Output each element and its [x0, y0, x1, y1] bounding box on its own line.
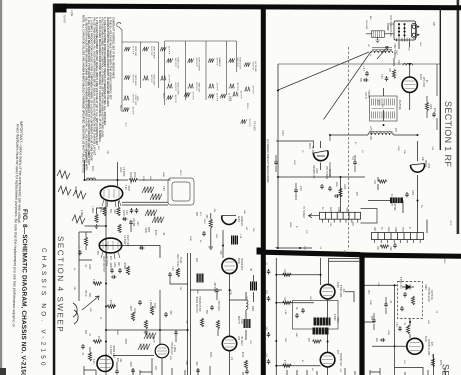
svg-text:PLUG: PLUG [179, 257, 181, 263]
wire [340, 177, 342, 212]
svg-text:94-173A: 94-173A [328, 169, 331, 178]
resistor R404 [117, 207, 120, 216]
svg-text:PIN 5: PIN 5 [162, 93, 164, 99]
wire: group1 drop col1 [121, 42, 123, 112]
svg-text:22K: 22K [84, 330, 86, 335]
terminal strip TS2 [372, 233, 424, 243]
svg-text:HTR: HTR [345, 207, 347, 212]
capacitor C12 [274, 160, 278, 165]
svg-text:120 V P-P: 120 V P-P [174, 58, 176, 68]
resistor R409 [93, 340, 102, 343]
svg-text:6BL7: 6BL7 [91, 166, 93, 172]
svg-text:470K: 470K [154, 230, 156, 236]
svg-text:6 KV P-P: 6 KV P-P [252, 62, 254, 71]
svg-text:28 V P-P: 28 V P-P [216, 93, 218, 102]
capacitor C418 [81, 344, 85, 349]
capacitor C406 [118, 268, 122, 273]
svg-text:27K: 27K [154, 366, 156, 371]
svg-text:10K 2W: 10K 2W [132, 218, 134, 227]
svg-text:1000: 1000 [343, 184, 345, 190]
svg-text:3.3K: 3.3K [92, 359, 94, 364]
deflection arc pair [73, 303, 78, 324]
wire [276, 302, 314, 304]
svg-text:.068: .068 [219, 250, 221, 255]
capacitor C5 [328, 186, 332, 191]
resistor R3 [339, 188, 342, 197]
svg-text:VHF TUNER: VHF TUNER [325, 166, 327, 179]
svg-text:CHASSIS NO. V-2150: CHASSIS NO. V-2150 [39, 248, 47, 369]
coil L1 uhf tank [371, 48, 393, 53]
tube V7 hv rect [222, 336, 236, 350]
wire: tube V1 top lead [117, 162, 119, 186]
svg-text:12 V P-P: 12 V P-P [248, 119, 250, 128]
capacitor C32 [398, 326, 402, 331]
svg-text:47K: 47K [430, 342, 432, 347]
wire [365, 284, 398, 286]
svg-text:82K: 82K [195, 212, 197, 217]
capacitor C7 [393, 243, 397, 248]
svg-text:HTR: HTR [401, 227, 403, 232]
waveform W11 [167, 95, 177, 104]
svg-text:47K: 47K [116, 358, 118, 363]
resistor R1 [392, 70, 395, 79]
wire: bottom stubs [106, 351, 230, 375]
if transformer T1 [370, 96, 398, 121]
wire: sound misc [365, 297, 434, 358]
svg-text:HORIZ: HORIZ [123, 262, 125, 270]
wire: group2 drop col8 [236, 41, 238, 72]
svg-text:TP 1407: TP 1407 [253, 121, 257, 131]
svg-text:45 V P-P: 45 V P-P [174, 83, 176, 92]
svg-text:15 V P-P: 15 V P-P [132, 107, 134, 116]
svg-text:.0047: .0047 [185, 360, 187, 366]
capacitor C10 [294, 188, 298, 193]
svg-text:6AX4: 6AX4 [237, 216, 240, 222]
capacitor C403 [122, 217, 127, 221]
wire: horiz bus lower [106, 329, 188, 331]
wire: group1 drop col3 [158, 42, 160, 88]
wire: rf misc [296, 64, 437, 200]
svg-text:HOLD: HOLD [84, 290, 86, 297]
svg-text:39K: 39K [117, 262, 119, 267]
wire: group1 drop col2 [140, 42, 142, 88]
capacitor C420 [245, 369, 249, 374]
waveform sawtooth [150, 194, 162, 200]
svg-text:3.9K: 3.9K [162, 186, 164, 191]
svg-text:1000: 1000 [315, 168, 317, 174]
wire: vert osc plate bus [85, 179, 129, 181]
svg-text:100K: 100K [88, 264, 90, 270]
svg-text:500K: 500K [209, 352, 211, 358]
wire: rf agc row [276, 141, 314, 172]
svg-text:1N64: 1N64 [424, 284, 426, 290]
svg-text:85 V P-P: 85 V P-P [236, 83, 238, 92]
capacitor C411 [129, 220, 133, 225]
wire [100, 246, 161, 259]
svg-text:.001: .001 [342, 288, 344, 293]
svg-text:TO ANT: TO ANT [63, 15, 66, 24]
resistor R31 [406, 325, 409, 334]
waveform squiggle left 3 [73, 190, 86, 199]
svg-text:VERT OUTPUT: VERT OUTPUT [102, 256, 104, 273]
resistor R407 [93, 282, 102, 285]
arrow to strip TS1 [309, 214, 320, 218]
capacitor C22 [267, 332, 271, 337]
svg-text:TO IF: TO IF [449, 220, 451, 226]
svg-text:560K: 560K [162, 172, 164, 178]
capacitor C412 [168, 272, 172, 277]
capacitor C405 [110, 268, 114, 273]
wire: link coil row [330, 134, 418, 136]
waveform W5 [143, 46, 156, 59]
capacitor C11 [405, 192, 409, 197]
wire: yoke pair upper [122, 202, 168, 205]
svg-text:6W4: 6W4 [251, 306, 253, 311]
svg-text:140 V P-P: 140 V P-P [150, 46, 152, 56]
svg-text:15K: 15K [403, 150, 405, 154]
waveform W15 [208, 83, 218, 92]
ground G3 [144, 330, 148, 334]
waveform squiggle left 1 [57, 170, 70, 179]
sweep label smudges [74, 152, 253, 371]
svg-text:VERT OUT: VERT OUT [126, 235, 128, 247]
svg-text:82K: 82K [169, 356, 171, 360]
resistor R21 [283, 301, 292, 304]
svg-text:4.5MC DET: 4.5MC DET [399, 277, 401, 290]
resistor R418 [88, 352, 91, 361]
svg-text:470K: 470K [99, 207, 101, 213]
svg-text:6BQ7: 6BQ7 [308, 143, 310, 150]
svg-text:470K: 470K [229, 290, 231, 296]
diagonal gang line 2 [324, 52, 372, 120]
tube V4 horiz output [222, 258, 237, 273]
wire: B+ bus vertical [105, 226, 107, 356]
wire: group2 drop col5 [185, 41, 187, 100]
trimmer arrow hold ctrl [82, 296, 99, 310]
svg-text:8.2K: 8.2K [92, 279, 94, 284]
resistor R412 [200, 318, 203, 327]
svg-text:.047: .047 [87, 152, 89, 157]
svg-text:HORIZ OSC: HORIZ OSC [112, 345, 114, 358]
waveform W6 [143, 75, 156, 87]
svg-text:1 MEG: 1 MEG [149, 300, 151, 307]
svg-text:.0039: .0039 [203, 218, 205, 224]
svg-text:2.2K: 2.2K [125, 210, 127, 215]
capacitor C34 [372, 318, 376, 323]
svg-text:1/2 6SN7: 1/2 6SN7 [123, 235, 125, 245]
svg-text:PHASE DET: PHASE DET [170, 342, 173, 356]
capacitor C410 [196, 368, 200, 373]
wire [276, 274, 320, 276]
svg-text:SECTION 1 RF: SECTION 1 RF [443, 101, 453, 167]
svg-text:3.3K: 3.3K [380, 74, 382, 79]
svg-text:.0039: .0039 [144, 227, 146, 233]
svg-text:HORIZ AFC: HORIZ AFC [153, 75, 156, 87]
wire [276, 365, 320, 367]
wire: if out [368, 201, 403, 214]
wire [253, 275, 255, 302]
capacitor C401 [130, 208, 134, 213]
svg-text:2.2K: 2.2K [299, 186, 301, 191]
capacitor C30 [403, 292, 407, 297]
svg-text:55 V P-P: 55 V P-P [132, 95, 134, 104]
svg-text:.005: .005 [265, 326, 267, 331]
yoke plug outer box [168, 178, 194, 205]
waveform sawtooth at V1 [142, 187, 154, 193]
svg-text:PIN 2: PIN 2 [179, 170, 181, 176]
resistor R401 [129, 178, 138, 181]
capacitor C23 [267, 359, 271, 364]
svg-text:GND: GND [337, 207, 339, 212]
thick horizontal divider right part [360, 252, 461, 258]
waveform W9 [167, 58, 179, 70]
svg-text:46.75: 46.75 [377, 100, 379, 106]
svg-text:.0047: .0047 [295, 332, 297, 338]
svg-text:SOUND IF AMP: SOUND IF AMP [427, 339, 430, 356]
capacitor C1 [385, 76, 389, 81]
svg-text:VERT GRID: VERT GRID [134, 75, 136, 87]
scan left edge shadow [0, 0, 2, 375]
svg-text:COIL: COIL [240, 319, 242, 325]
svg-text:GND: GND [394, 227, 396, 232]
svg-text:.001: .001 [119, 358, 121, 363]
svg-text:12K: 12K [89, 308, 91, 312]
svg-text:47K: 47K [97, 146, 99, 150]
svg-text:15K: 15K [215, 234, 217, 238]
wire: mixer column [417, 141, 419, 233]
svg-text:HEIGHT: HEIGHT [74, 186, 76, 195]
svg-text:VERT LIN: VERT LIN [122, 210, 124, 221]
svg-text:160K: 160K [119, 167, 121, 173]
wire: V1 to V2 link [106, 201, 119, 226]
svg-text:30 V P-P: 30 V P-P [150, 75, 152, 84]
wire: bottom box [395, 368, 424, 375]
svg-text:95 V P-P: 95 V P-P [216, 58, 218, 67]
waveform sawtooth at V6 [138, 344, 150, 350]
detector dashed box [398, 282, 423, 319]
svg-text:270K: 270K [439, 360, 441, 366]
capacitor C33 [380, 338, 385, 342]
svg-text:HORIZ OUT: HORIZ OUT [240, 258, 242, 271]
waveform W23 [184, 92, 194, 101]
capacitor C415 [164, 312, 168, 317]
svg-text:KNOWN 100: KNOWN 100 [312, 165, 314, 179]
waveform W4 [123, 107, 134, 116]
svg-text:220K: 220K [142, 176, 144, 182]
capacitor C9 [353, 160, 357, 165]
coil L27 osc link [368, 131, 393, 135]
capacitor C417 [139, 246, 144, 250]
svg-text:FINE TUNING: FINE TUNING [393, 44, 395, 59]
wire [320, 141, 322, 170]
resistor R417 [84, 237, 87, 246]
capacitor C414 [138, 300, 142, 305]
svg-text:(A) SWEEP CIRCUIT WAVEFORMS: (A) SWEEP CIRCUIT WAVEFORMS [266, 139, 270, 183]
svg-text:HORIZ OUT: HORIZ OUT [239, 58, 241, 70]
svg-text:35 V P-P: 35 V P-P [168, 46, 170, 55]
svg-text:4.7K: 4.7K [283, 360, 285, 365]
video label smudges [265, 262, 345, 367]
waveform sawtooth [145, 210, 157, 216]
svg-text:VOL: VOL [367, 290, 369, 295]
capacitor C409 [131, 368, 135, 373]
capacitor C20 [267, 269, 271, 274]
svg-text:390K: 390K [116, 330, 118, 336]
tube V1 vert osc [100, 186, 122, 207]
svg-text:90 V P-P: 90 V P-P [132, 75, 134, 84]
tuner switch box [394, 21, 419, 40]
svg-text:PIN 7: PIN 7 [211, 95, 213, 101]
capacitor C6 [334, 194, 339, 198]
left print border [53, 4, 56, 375]
coil L2 [403, 63, 413, 65]
waveform W16 [208, 93, 218, 102]
resistor R23 [313, 340, 322, 343]
transformer core T401 [231, 236, 238, 245]
svg-text:270K: 270K [133, 172, 135, 178]
svg-text:15 V P-P: 15 V P-P [240, 91, 242, 100]
svg-text:HV: HV [249, 268, 251, 272]
svg-text:.005: .005 [389, 246, 391, 251]
svg-text:500K: 500K [369, 300, 371, 306]
capacitor C31 [400, 306, 404, 311]
svg-text:22K: 22K [284, 338, 286, 342]
thick horizontal divider left part [263, 250, 360, 258]
coil L401 [87, 178, 96, 180]
capacitor C421 [174, 330, 178, 335]
svg-text:.047: .047 [112, 303, 114, 308]
svg-text:HORIZ OUTPUT: HORIZ OUTPUT [195, 296, 197, 314]
svg-text:PIN 9: PIN 9 [246, 103, 248, 109]
svg-text:1.8K: 1.8K [284, 310, 286, 315]
transformer core T403 [244, 319, 251, 328]
tube V12 sound det [320, 352, 335, 367]
capacitor C2 [365, 71, 369, 76]
svg-text:MC: MC [381, 104, 383, 108]
svg-text:4.5MC AMP: 4.5MC AMP [339, 285, 342, 298]
svg-text:470K: 470K [109, 300, 111, 306]
rf label smudges [281, 16, 435, 252]
svg-text:1B3: 1B3 [237, 336, 239, 341]
junction dots rf [277, 63, 419, 249]
svg-text:IF OUTPUT: IF OUTPUT [390, 194, 392, 207]
resistor R403 [103, 207, 106, 216]
capacitor C407 [111, 275, 116, 279]
wire [229, 292, 246, 340]
waveform W10 [167, 83, 179, 96]
yoke plug inner box [172, 182, 190, 201]
wire [372, 345, 407, 347]
svg-text:ANT: ANT [369, 16, 372, 21]
wire [79, 232, 92, 301]
wire: b+ bus vertical [275, 258, 277, 375]
svg-text:70 V P-P: 70 V P-P [216, 83, 218, 92]
wire [327, 334, 329, 353]
center thick vertical divider [261, 8, 266, 375]
wire [345, 292, 354, 302]
svg-text:SYNC OUT: SYNC OUT [134, 95, 136, 106]
waveform W22 [241, 119, 251, 128]
waveform sawtooth [144, 333, 156, 339]
capacitor C4 [320, 184, 324, 189]
svg-text:HORIZ DRIVE: HORIZ DRIVE [198, 58, 200, 72]
wire: group2 drop col4 [164, 41, 166, 105]
waveform W21 [244, 86, 254, 95]
svg-text:470K: 470K [84, 152, 86, 158]
waveform W17 [229, 58, 241, 70]
wire: left column feed [85, 160, 107, 226]
svg-text:VERT OSC: VERT OSC [129, 172, 131, 184]
divider stub at sweep/rf junction [257, 248, 266, 255]
svg-text:.0027: .0027 [129, 361, 131, 367]
svg-text:6CB6: 6CB6 [336, 282, 338, 288]
svg-text:6AF4: 6AF4 [419, 74, 422, 80]
svg-text:TRANS: TRANS [367, 90, 370, 98]
waveform W12 [188, 58, 200, 72]
svg-text:300 OHM: 300 OHM [365, 20, 367, 30]
svg-text:1/2 6SN7: 1/2 6SN7 [122, 167, 124, 177]
svg-text:SECTION 3: SECTION 3 [441, 364, 451, 375]
dashed tuner shield [348, 47, 350, 250]
wire: damper cathode [222, 230, 224, 258]
resistor R402 [95, 214, 98, 223]
waveform squiggle left 2 [58, 186, 71, 195]
svg-text:22K: 22K [195, 258, 197, 263]
resistor R410 [126, 266, 129, 275]
svg-text:L27 OSC INJ: L27 OSC INJ [369, 126, 371, 140]
waveform squiggle left 4 [72, 215, 85, 224]
svg-text:10K: 10K [388, 68, 390, 73]
svg-text:HV RECT: HV RECT [240, 336, 242, 347]
svg-text:6AL5: 6AL5 [152, 337, 155, 343]
wire [320, 258, 322, 285]
capacitor C35 [384, 302, 388, 307]
wire [426, 220, 428, 234]
svg-text:V407: V407 [136, 96, 138, 102]
wire [159, 310, 161, 344]
svg-text:1.2K: 1.2K [171, 266, 173, 271]
resistor R5 [425, 102, 428, 111]
waveform W20 [244, 62, 256, 73]
svg-text:DEFL YOKE: DEFL YOKE [176, 254, 178, 267]
diagonal gang line 1 [277, 52, 369, 91]
svg-text:LINE: LINE [70, 11, 74, 17]
top thick border [54, 4, 461, 11]
capacitor C402 [135, 208, 139, 213]
wire: tuner box leads [388, 25, 410, 49]
trap coil core 1 [314, 318, 331, 326]
svg-text:560K: 560K [189, 236, 191, 242]
resistor R20 [283, 273, 292, 276]
wire [210, 213, 212, 245]
svg-text:ANT: ANT [432, 22, 435, 27]
svg-text:MIXER: MIXER [424, 160, 426, 168]
resistor R411 [144, 320, 147, 329]
svg-text:HV PULSE: HV PULSE [254, 62, 256, 73]
svg-text:44.25 MC: 44.25 MC [398, 100, 400, 110]
transformer core T402 [250, 282, 257, 291]
svg-text:6.8K: 6.8K [343, 250, 345, 255]
svg-text:AGC: AGC [335, 182, 338, 187]
tube V9 rf amp [313, 151, 328, 161]
wire: uhf osc column [394, 58, 410, 110]
svg-text:SAW OUT: SAW OUT [198, 83, 201, 93]
wire [97, 208, 107, 214]
junction dots video [275, 274, 328, 367]
svg-text:TO YOKE: TO YOKE [105, 256, 107, 267]
capacitor C419 [115, 369, 119, 374]
waveform W3 [123, 95, 136, 106]
